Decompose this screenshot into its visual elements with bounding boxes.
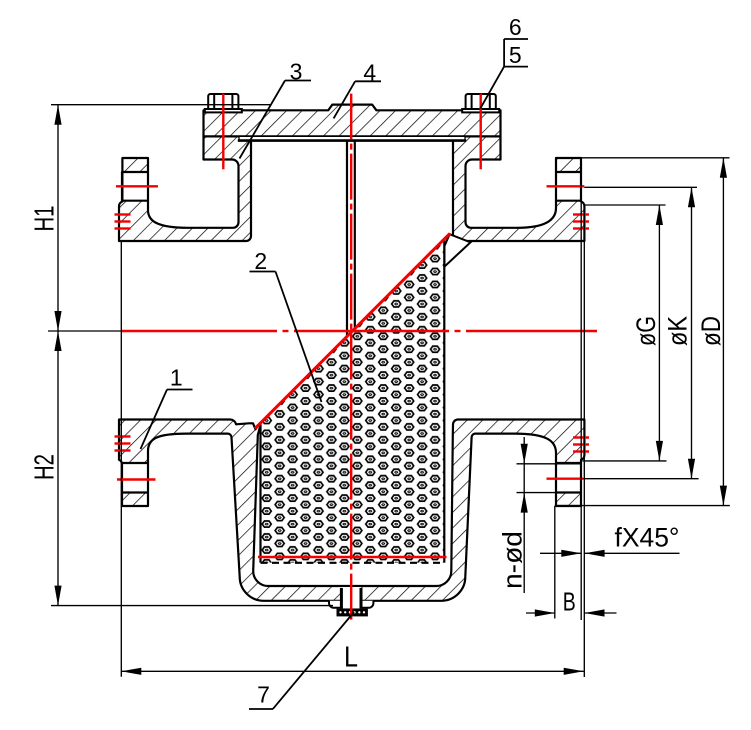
dimension phiK <box>584 186 697 188</box>
body casting upper-left: inlet flange, pipe top wall, neck, top flange block <box>119 136 251 241</box>
body casting lower: flanges, pipe bottom walls, sump bowl <box>119 419 584 600</box>
svg-text:2: 2 <box>254 248 267 274</box>
cover bolt centreline left (red) <box>222 94 224 170</box>
dimension H1 <box>51 104 270 106</box>
dimension phiG <box>584 204 665 206</box>
svg-text:øD: øD <box>696 316 726 346</box>
gasket marks left top flange (red) <box>115 213 131 215</box>
body casting upper-right: outlet flange, pipe top wall, neck, top flange block <box>453 136 584 241</box>
dimension n-phid (bolt hole) <box>517 463 582 465</box>
cover bolt right (parts 5/6) <box>462 109 499 112</box>
centreline black extension at left <box>48 330 122 332</box>
svg-text:øG: øG <box>631 316 661 346</box>
svg-text:n-ød: n-ød <box>498 531 528 589</box>
cover plate (part 3) with raised centre boss <box>204 105 501 137</box>
basket right edge <box>443 239 445 563</box>
svg-text:øK: øK <box>663 316 693 346</box>
svg-text:1: 1 <box>170 365 183 391</box>
basket rim diagonal (red) <box>255 233 450 428</box>
cover bolt left (parts 5/6) <box>205 109 242 112</box>
bolt centreline left bottom flange (red) <box>117 478 156 480</box>
svg-text:5: 5 <box>509 42 522 68</box>
main horizontal centreline (red) <box>122 330 277 332</box>
drain plug knurled head (part 7) <box>337 609 368 617</box>
gasket marks right top flange (red) <box>573 213 589 215</box>
leader to bolt <box>480 67 504 109</box>
strainer basket mesh (part 2) <box>261 239 445 563</box>
cover spigot lip <box>239 137 465 140</box>
cover bolt centreline right (red) <box>480 94 482 170</box>
drain boss bump under bowl <box>329 601 373 608</box>
basket bottom edge (dashed) <box>261 562 445 564</box>
gasket marks left bottom flange (red) <box>115 435 131 437</box>
svg-text:fX45°: fX45° <box>615 523 680 553</box>
svg-text:H2: H2 <box>29 454 60 480</box>
basket stem / tie rod (part 4) <box>346 141 348 337</box>
gasket marks right bottom flange (red) <box>573 436 589 438</box>
bolt centreline right top flange (red) <box>547 185 585 187</box>
dimension H2 <box>57 331 59 606</box>
vertical stem/basket centreline (red) <box>350 94 352 622</box>
drain plug shank <box>340 588 343 609</box>
svg-text:6: 6 <box>509 14 522 40</box>
svg-text:H1: H1 <box>29 206 60 232</box>
dimension B (flange thickness) <box>554 506 556 619</box>
dimension fX45 (chamfer) <box>540 552 581 554</box>
svg-text:7: 7 <box>257 682 270 708</box>
basket left edge <box>259 424 261 563</box>
basket bottom line (red) <box>258 556 447 559</box>
basket rim seat wedge at top right <box>445 234 471 266</box>
bolt centreline left top flange (red) <box>116 185 158 187</box>
svg-text:L: L <box>344 642 358 674</box>
dimension L <box>120 241 122 677</box>
dimension phiD <box>581 157 730 159</box>
svg-text:B: B <box>563 587 576 617</box>
bolt centreline right bottom flange (red) <box>547 478 584 480</box>
